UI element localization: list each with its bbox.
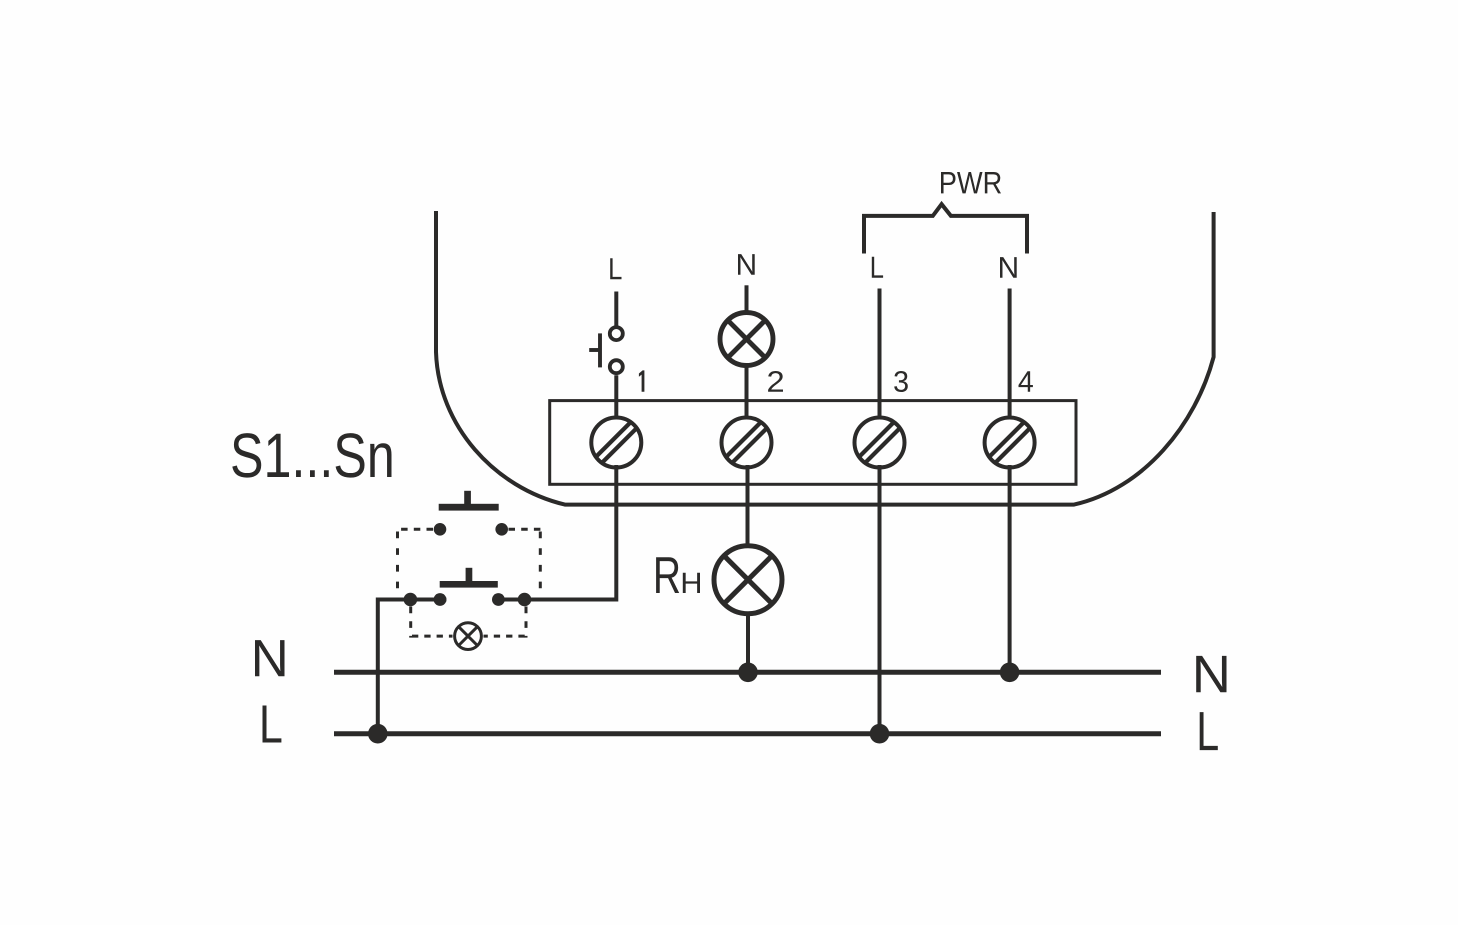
wire terminal 1 down and left to switch contacts (493, 465, 617, 600)
N bus line (334, 670, 1161, 675)
push button S1 contact right (495, 523, 508, 536)
wire N to lamp (745, 285, 749, 315)
wire terminal 2 down to heater lamp (746, 465, 750, 546)
pin number 4 (1019, 371, 1033, 391)
label N right (1196, 656, 1226, 692)
terminal 1 (591, 418, 641, 468)
label N of PWR pair (1000, 257, 1017, 278)
junction dot RH on N bus (738, 663, 758, 683)
heater lamp RH (714, 546, 782, 614)
push button contact bottom (610, 360, 623, 373)
label RH (656, 557, 679, 593)
L bus line (334, 731, 1161, 736)
label N left (255, 640, 285, 676)
terminal 3 (855, 418, 905, 468)
PWR bracket (864, 204, 1027, 253)
wire L to push button (614, 292, 618, 328)
junction dot switch branch on L bus (368, 724, 388, 744)
label S1...Sn (232, 433, 391, 477)
label L left (263, 706, 282, 743)
device enclosure outline (436, 211, 1214, 505)
junction dot right on switch wire (518, 593, 532, 607)
push button S1 actuator stem (464, 491, 471, 505)
push button Sn contact left (434, 593, 447, 606)
label L right (1200, 712, 1218, 750)
terminal block (550, 401, 1076, 485)
junction dot left on switch wire (404, 593, 418, 607)
label N above lamp (738, 254, 755, 275)
label PWR (941, 172, 1001, 193)
dashed group box upper right (509, 528, 543, 531)
lamp above terminal 2 (720, 313, 773, 366)
wire terminal 3 down to L bus (878, 465, 882, 732)
terminal 4 (985, 418, 1035, 468)
indicator lamp in switch (455, 623, 482, 650)
push button Sn actuator stem (466, 568, 473, 581)
wire lamp to terminal 2 (745, 366, 749, 421)
push button S1 bridge bar (439, 504, 499, 511)
label L above push button (610, 258, 621, 279)
dashed indicator branch right (525, 607, 528, 638)
push button contact top (610, 327, 623, 340)
label L of PWR pair (872, 257, 883, 278)
push button S1 contact left (434, 523, 447, 536)
terminal 2 (722, 418, 772, 468)
junction dot terminal 3 on L bus (870, 724, 890, 744)
wire RH lamp to N bus (746, 613, 750, 672)
wire terminal 4 down to N bus (1008, 465, 1012, 671)
wire N to terminal 4 (1008, 289, 1012, 421)
push button Sn contact right (492, 593, 505, 606)
junction dot terminal 4 on N bus (1000, 663, 1020, 683)
pin number 3 (894, 371, 908, 392)
push button Sn bridge bar (440, 581, 498, 588)
dashed group box upper left (395, 528, 433, 531)
wire switch contacts to L bus (378, 600, 447, 732)
dashed indicator branch left (409, 607, 412, 638)
wire L to terminal 3 (878, 289, 882, 421)
pin number 2 (768, 371, 783, 392)
wire push button to terminal 1 (614, 375, 618, 420)
push button actuator (589, 333, 600, 367)
pin number 1 (639, 370, 645, 391)
